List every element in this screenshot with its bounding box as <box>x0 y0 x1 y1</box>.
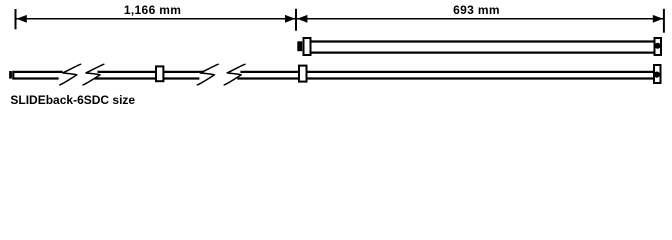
svg-text:1,166 mm: 1,166 mm <box>124 3 182 17</box>
dimension D1 right arrowhead <box>285 15 295 23</box>
upper rod body bottom line <box>311 51 656 53</box>
lower rod collar 1 <box>156 66 163 81</box>
lower rod collar 2 <box>299 66 307 82</box>
lower rod segment D top line <box>240 71 299 73</box>
dimension D1 left arrowhead <box>17 15 27 23</box>
dimension D2 right arrowhead <box>653 15 663 23</box>
lower rod segment C top line <box>164 71 204 73</box>
lower rod segment B top line <box>98 71 157 73</box>
lower rod right end cap <box>654 65 661 83</box>
dimension D2 right extension tick <box>663 9 665 33</box>
upper rod left black nub <box>297 41 302 51</box>
lower rod segment E bottom line <box>307 77 655 79</box>
upper rod left collar <box>304 38 311 55</box>
svg-text:693 mm: 693 mm <box>453 3 500 17</box>
lower rod segment E top line <box>307 71 655 73</box>
lower rod segment A <box>13 72 62 79</box>
break symbol S2 <box>83 64 104 85</box>
break symbol S3 <box>197 64 218 85</box>
upper rod body top line <box>311 40 656 42</box>
upper rod end-cap hole (dot) <box>655 43 661 49</box>
shared middle extension tick <box>295 9 297 31</box>
break symbol S1 <box>60 64 81 85</box>
break symbol S4 <box>224 64 245 85</box>
dimension D1 line <box>17 18 296 20</box>
dimension D2 left arrowhead <box>297 15 307 23</box>
dimension D1 (1,166 mm) left extension tick <box>15 9 17 29</box>
lower rod left black nub <box>9 71 12 79</box>
lower rod end-cap hole (dot) <box>654 72 660 78</box>
lower rod segment D bottom line <box>237 77 299 79</box>
lower rod segment C bottom line <box>164 77 200 79</box>
upper rod right end cap <box>655 38 662 55</box>
lower rod segment B bottom line <box>95 77 157 79</box>
svg-text:SLIDEback-6SDC size: SLIDEback-6SDC size <box>10 93 135 107</box>
dimension D2 (693 mm) line <box>297 18 663 20</box>
